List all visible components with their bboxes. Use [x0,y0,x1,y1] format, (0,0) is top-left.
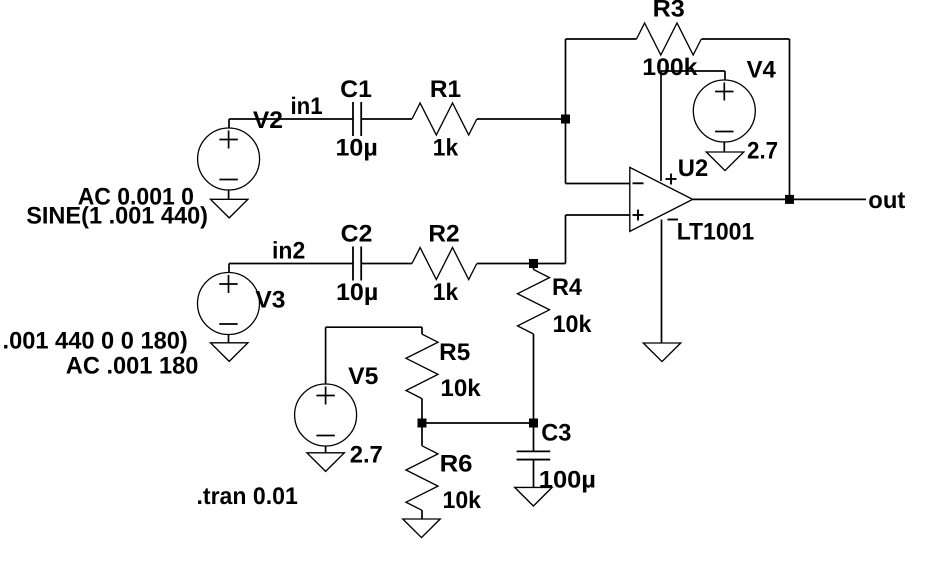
svg-text:V3: V3 [255,286,285,313]
svg-text:R4: R4 [552,274,583,301]
svg-text:2.7: 2.7 [350,442,383,469]
svg-text:U2: U2 [678,155,708,182]
svg-text:out: out [868,187,905,214]
svg-text:2.7: 2.7 [747,138,778,165]
svg-text:10k: 10k [440,375,481,402]
svg-text:SINE(1 .001 440): SINE(1 .001 440) [26,202,208,229]
svg-text:R3: R3 [653,0,685,22]
svg-text:10k: 10k [553,311,592,338]
svg-text:1k: 1k [433,279,459,306]
svg-text:10k: 10k [443,487,482,514]
svg-text:R5: R5 [439,339,470,366]
svg-text:10µ: 10µ [336,279,378,306]
svg-text:R2: R2 [428,221,459,248]
svg-text:100k: 100k [642,54,698,81]
svg-text:C1: C1 [340,76,372,103]
svg-text:C3: C3 [541,419,571,446]
svg-text:C2: C2 [341,221,373,248]
svg-text:V4: V4 [747,56,777,83]
svg-text:AC .001 180: AC .001 180 [66,353,199,380]
svg-text:R1: R1 [430,76,461,103]
svg-text:100µ: 100µ [539,466,596,493]
svg-text:V5: V5 [348,363,378,390]
svg-text:R6: R6 [440,450,473,477]
svg-text:in1: in1 [291,93,323,120]
svg-text:LT1001: LT1001 [677,219,755,246]
svg-text:.tran 0.01: .tran 0.01 [197,483,298,510]
svg-text:in2: in2 [272,238,305,265]
svg-text:10µ: 10µ [336,134,378,161]
svg-text:V2: V2 [253,107,283,134]
svg-text:1k: 1k [433,135,459,162]
svg-text:.001 440 0 0 180): .001 440 0 0 180) [3,327,188,354]
